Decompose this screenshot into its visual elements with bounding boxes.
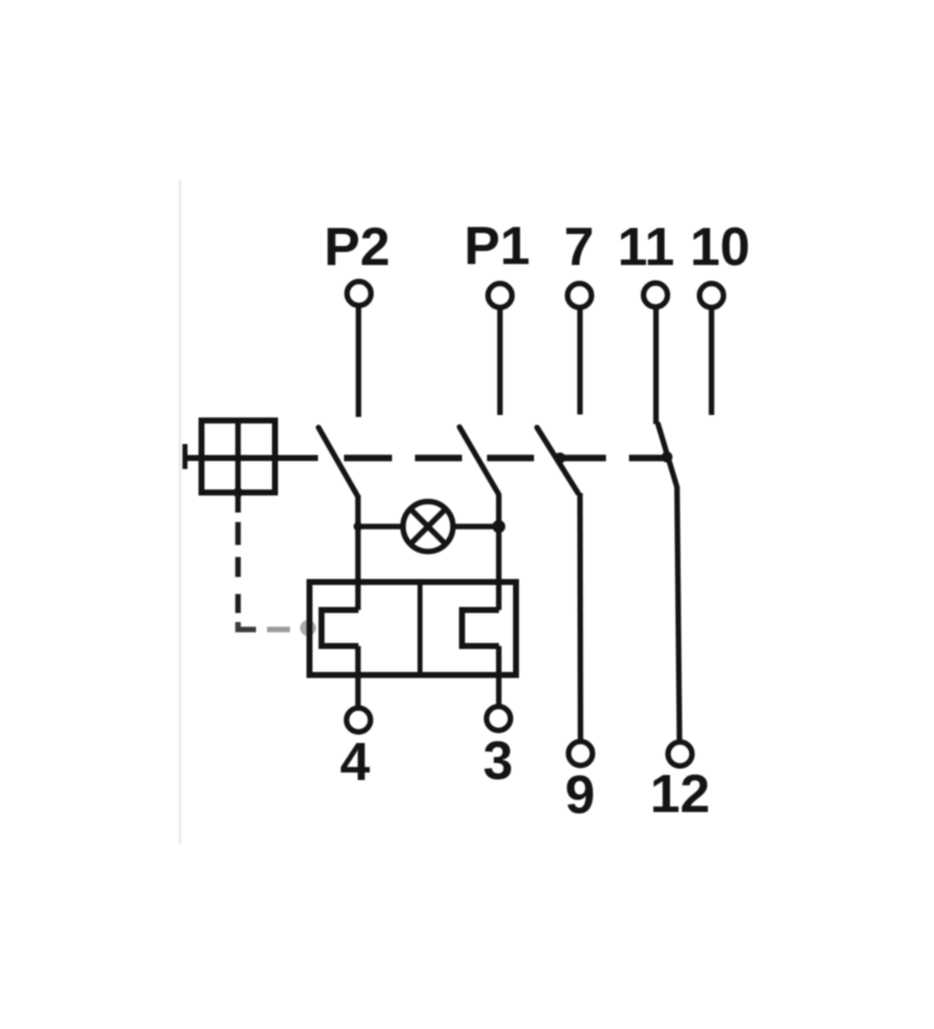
svg-text:9: 9 [565,765,595,825]
wire 11 top [653,309,659,425]
terminal label P1 [464,216,530,276]
contact pole P2-4 [319,428,358,496]
wire P1 top [497,309,503,415]
wire 10 top [709,309,715,415]
wire 9 lower [577,493,583,741]
terminal label 7 [564,217,594,277]
svg-text:11: 11 [617,217,674,277]
svg-text:P1: P1 [464,216,530,276]
terminal label 12 [650,764,710,824]
trip bar dashed segments [344,455,667,462]
contact pole 11-12 [658,424,677,486]
wire P2 lower [355,495,361,707]
thermal overload release box [310,582,517,675]
wire P1 lower [496,494,502,706]
terminal 4 [347,708,371,732]
junction actuator bottom [233,488,243,498]
terminal 3 [487,707,511,731]
thermal element pole P2-4 [322,610,359,646]
contact pole P1-3 [460,427,499,494]
junction trip bar x contact 11 [662,452,673,463]
contact pole 7-9 [537,428,578,494]
svg-text:10: 10 [690,217,750,277]
terminal label 4 [340,732,370,792]
indicator lamp wire left [358,524,404,530]
trip linkage corner dash [238,622,256,630]
svg-text:12: 12 [650,764,710,824]
junction lamp-P2 wire [354,522,363,531]
indicator lamp [403,502,453,552]
actuator stub below [235,493,241,513]
trip linkage attachment blob [300,620,316,636]
terminal 10 [700,284,724,308]
svg-text:7: 7 [564,217,594,277]
junction trip bar x contact 7 [555,453,566,464]
terminal P1 [488,284,512,308]
manual actuator (rotary knob) box [202,421,276,493]
junction lamp-P1 wire [492,520,505,533]
thermal element pole P1-3 [462,610,499,646]
actuator left tick [183,444,188,469]
trip linkage dashed horizontal (gray) [267,627,290,633]
svg-text:P2: P2 [324,217,390,277]
terminal label 3 [483,731,513,791]
terminal label 9 [565,765,595,825]
terminal label 11 [617,217,674,277]
wire P2 top [356,307,362,417]
terminal 9 [569,742,593,766]
indicator lamp wire right [452,524,499,530]
wire 12 lower [677,486,680,741]
svg-text:3: 3 [483,731,513,791]
wire 7 top [577,309,583,415]
terminal 12 [668,742,692,766]
terminal 7 [568,284,592,308]
svg-text:4: 4 [340,732,370,792]
terminal label P2 [324,217,390,277]
terminal P2 [347,282,371,306]
terminal 11 [644,283,668,307]
trip linkage dashed vertical [235,522,241,613]
trip bar solid segment [185,455,318,461]
terminal label 10 [690,217,750,277]
